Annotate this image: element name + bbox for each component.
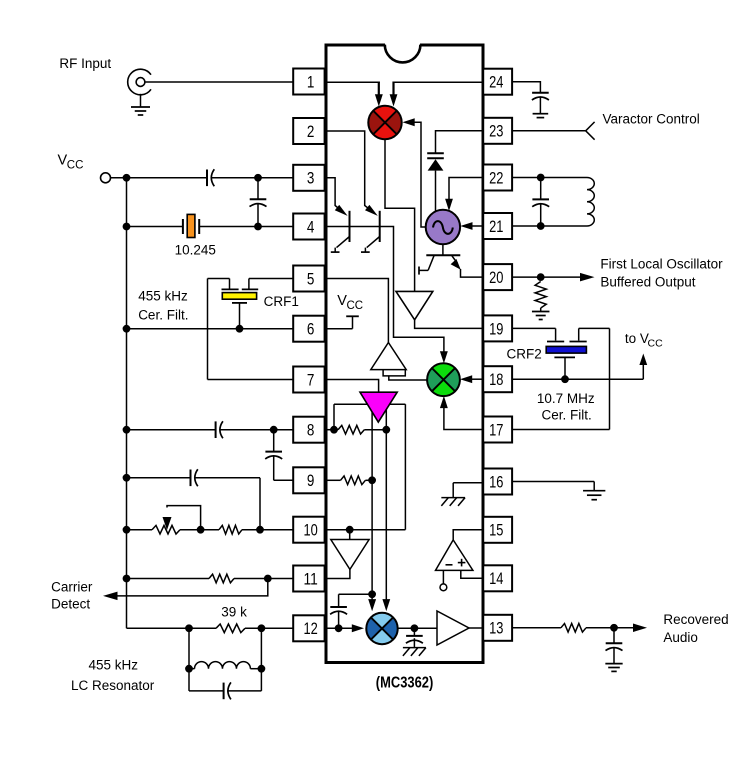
resistor R8 (pin 9 internal) <box>341 476 366 485</box>
node: junction dot pin-8 row near box <box>270 426 278 434</box>
svg-text:6: 6 <box>307 320 315 339</box>
ground (slashed) at C11 <box>403 647 426 649</box>
ground at C7 <box>533 97 549 118</box>
node: junction dot rail pin-11 row <box>123 575 131 583</box>
arrow into quad detector left <box>352 624 364 632</box>
audio buffer A5 (right triangle) <box>437 611 469 645</box>
resistor R7 (pin 8 internal) <box>338 425 364 434</box>
wire pin 1 to first mixer <box>326 81 380 83</box>
wire pin 10 internal row <box>326 529 405 531</box>
wire A2 output to second mixer <box>389 376 427 380</box>
resistor R2 (pin 10 row) <box>219 525 242 534</box>
wire RF connector to pin 1 <box>145 81 293 83</box>
wire pin 5 to IF amp A2 <box>326 279 388 343</box>
wire pin 18 to Vcc pull <box>512 378 643 380</box>
svg-text:CC: CC <box>648 338 664 350</box>
wire comparator output to pin 15 <box>453 530 483 540</box>
transistor Q3 (oscillator buffer) <box>419 244 460 274</box>
Vcc label <box>58 153 84 172</box>
capacitor C8 (first LO tank) <box>532 178 549 227</box>
ground at pin 16 <box>583 482 605 500</box>
node: junction dot rail pin-4 row <box>123 223 131 231</box>
wire pin 2 to transistor Q2 <box>326 131 372 211</box>
wire quad detector output to audio buffer <box>398 627 437 629</box>
wire rail to pin 8 with series capacitor <box>127 429 294 431</box>
svg-text:10.245: 10.245 <box>175 243 216 258</box>
capacitor C2 (pin3 node down to pin4 node) <box>250 178 267 227</box>
wire pin 3 to transistor Q1 <box>326 178 342 211</box>
ground at R5 <box>532 308 550 320</box>
svg-text:19: 19 <box>489 319 503 338</box>
arrow into second mixer right <box>460 375 472 383</box>
inductor L2 (first LO tank) <box>587 178 594 226</box>
svg-text:9: 9 <box>307 471 315 490</box>
capacitor C4 (pin8 node down to pin 9) <box>265 430 293 481</box>
wire pin 20 buffered output <box>512 276 581 278</box>
wire rail to pot <box>127 529 153 531</box>
wire pin 10 down to meter amp <box>349 530 351 540</box>
svg-text:39 k: 39 k <box>221 605 247 620</box>
inductor L1 (455 kHz LC resonator) <box>189 628 261 668</box>
capacitor C9 (audio to ground) <box>606 628 623 664</box>
svg-text:8: 8 <box>307 421 315 440</box>
svg-text:CC: CC <box>67 160 84 172</box>
crystal Y1 10.245 MHz <box>183 214 199 237</box>
node: junction dot rail pin-8 row <box>123 426 131 434</box>
svg-text:Audio: Audio <box>663 630 698 645</box>
node: junction dot L1 right <box>258 665 266 673</box>
wire carrier detect output <box>117 579 268 596</box>
pin 5 box <box>293 266 324 292</box>
svg-text:11: 11 <box>303 569 317 588</box>
wire pin 18 into second mixer right <box>468 378 484 380</box>
arrow into second mixer bottom <box>440 396 448 408</box>
arrows into quad detector top <box>368 599 390 611</box>
svg-text:4: 4 <box>307 217 315 236</box>
node: junction dot pin-3 row right <box>254 174 262 182</box>
node: junction dot pot wiper tap <box>197 526 205 534</box>
node: junction dot detector output <box>411 624 419 632</box>
label Carrier Detect <box>51 579 93 611</box>
RF input connector J1 <box>128 69 151 95</box>
capacitor C1 (series, Vcc to pin 3) <box>206 170 208 187</box>
ground at C9 <box>605 663 622 665</box>
wire A1 output to pin 19 <box>415 320 484 329</box>
node: junction dot pin-20 wire <box>537 273 545 281</box>
svg-text:RF Input: RF Input <box>59 56 111 71</box>
resistor R4 39k (pin 12 row) <box>216 624 245 633</box>
resistor R3 (pin 11 row) <box>209 574 234 583</box>
Vcc label inside IC <box>337 293 363 312</box>
svg-text:22: 22 <box>489 168 503 187</box>
svg-text:15: 15 <box>489 521 503 540</box>
pin 12 box <box>293 615 324 641</box>
comparator A6 <box>436 540 473 571</box>
arrow into second mixer top <box>440 351 448 363</box>
oscillator OSC1 (purple, sine) <box>426 210 460 244</box>
wire Vcc to pin 3 with series capacitor break <box>111 177 294 179</box>
svg-text:5: 5 <box>307 269 315 288</box>
label 455 kHz Cer. Filt. <box>138 289 188 323</box>
wire pin 22 to tank <box>512 177 587 179</box>
svg-text:Recovered: Recovered <box>663 612 728 627</box>
node: junction dot on Vcc rail at pin-3 row <box>123 174 131 182</box>
svg-text:Detect: Detect <box>51 597 90 612</box>
node: junction dot rail pin-6 row <box>123 325 131 333</box>
wire pin 24 to bypass cap <box>512 82 540 93</box>
second mixer M2 (green) <box>427 363 460 396</box>
IC body U1 MC3362 DIP-24 outline <box>326 43 483 663</box>
svg-text:20: 20 <box>489 268 503 287</box>
node: junction dot quad tap <box>368 590 376 598</box>
wire rail to R3 to pin 11 <box>127 578 294 580</box>
IF amp A2 (up triangle) <box>371 343 406 376</box>
pin 4 box <box>293 214 324 240</box>
arrow into oscillator top <box>445 199 453 211</box>
node: junction dot CRF1 bottom on pin-6 wire <box>236 325 244 333</box>
wire rail to pin 6 <box>127 328 294 330</box>
wire pin 17 up into second mixer bottom <box>444 406 483 430</box>
pin 10 box <box>293 517 324 543</box>
pin 18 box <box>483 366 512 392</box>
wire R6 to arrow <box>586 627 634 629</box>
meter drive amp A4 (down triangle) <box>331 540 369 570</box>
svg-text:17: 17 <box>489 420 503 439</box>
svg-text:18: 18 <box>489 370 503 389</box>
pin 14 box <box>483 565 512 591</box>
capacitor C6 (LC resonator) <box>189 669 261 700</box>
pin 22 box <box>483 165 512 191</box>
pin 16 box <box>483 469 512 495</box>
node: junction dot feedback tap pin 8 <box>330 426 338 434</box>
wire pin 24 to first mixer <box>393 81 484 83</box>
svg-text:14: 14 <box>489 569 503 588</box>
pin 15 box <box>483 517 512 543</box>
svg-text:10.7 MHz: 10.7 MHz <box>537 391 595 406</box>
svg-text:CC: CC <box>347 300 364 312</box>
svg-text:21: 21 <box>489 217 503 236</box>
pin 23 box <box>483 118 512 144</box>
pin 20 box <box>483 264 512 290</box>
svg-text:12: 12 <box>303 619 317 638</box>
first mixer M1 (red) <box>368 106 401 139</box>
svg-text:23: 23 <box>489 122 503 141</box>
wire pin 21 to tank <box>512 225 587 227</box>
svg-text:to V: to V <box>625 331 649 346</box>
wire pin 12 into quad detector <box>326 627 355 629</box>
capacitor C5 (series, rail row 9) <box>190 470 192 487</box>
pin 6 box <box>293 316 324 342</box>
capacitor C3 (series, rail to pin 8) <box>215 421 217 438</box>
svg-text:CRF1: CRF1 <box>264 294 299 309</box>
node: junction dot pin-11 row near box <box>264 575 272 583</box>
wire pin 21 into oscillator right <box>468 225 483 227</box>
varactor diode D1 <box>427 153 444 214</box>
node: junction dot tank bottom <box>537 222 545 230</box>
node: junction dot pin-10 internal <box>346 526 354 534</box>
node: junction dot 39k right <box>258 624 266 632</box>
wire pin 23 to varactor <box>436 131 484 153</box>
svg-text:455 kHz: 455 kHz <box>138 289 188 304</box>
arrow into Q2 base bar <box>365 205 378 216</box>
arrow into first mixer (from pin 1) <box>375 94 383 106</box>
capacitor C7 (pin 24 bypass) <box>532 92 549 94</box>
wire CRF1 left terminal down to pin 7 <box>208 279 294 380</box>
wire rail row 9 with series capacitor to pin10 row <box>127 478 261 530</box>
pin 13 box <box>483 615 512 641</box>
pin 24 box <box>483 69 512 95</box>
ceramic filter CRF2 <box>512 328 587 379</box>
wire pin 9 internal <box>326 479 372 481</box>
pin 9 box <box>293 467 324 493</box>
wire A5 to pin 13 <box>469 627 483 629</box>
node: junction dot rail pin-10 row <box>123 526 131 534</box>
arrow first LO buffered output <box>580 273 595 282</box>
ground (slashed) at pin 16 internal <box>441 497 465 499</box>
wire A4 output to pin 11 <box>326 569 350 578</box>
wire comparator plus input to pin 14 <box>461 570 483 578</box>
ceramic filter CRF1 <box>208 279 259 329</box>
wire Q3 emitter to pin 20 <box>461 269 484 277</box>
pin 19 box <box>483 315 512 341</box>
wire Vcc left rail (vertical) <box>126 178 128 629</box>
wire limiter feedback and bias (behind limiter triangle) <box>334 404 405 600</box>
label Recovered Audio <box>663 612 728 645</box>
Vcc terminal open circle <box>101 173 111 183</box>
wire rail to crystal to pin 4 <box>127 226 294 228</box>
svg-text:455 kHz: 455 kHz <box>89 658 139 673</box>
node: junction dot CRF2 bottom on pin-18 wire <box>561 375 569 383</box>
resistor R5 (pin 20 to ground) <box>535 282 546 309</box>
arrow recovered audio output <box>633 624 647 633</box>
wire pin 16 internal to ground <box>453 483 483 498</box>
svg-text:Cer. Filt.: Cer. Filt. <box>138 307 188 322</box>
node: junction dot rail pin-9 row <box>123 474 131 482</box>
wire oscillator to first mixer (LO injection) <box>412 122 426 227</box>
chevron varactor control input <box>586 122 595 140</box>
wire rail corner to 39k to pin 12 <box>127 627 294 629</box>
wire pin 7 into limiter top <box>326 380 379 393</box>
quadrature detector M3 (blue) <box>366 613 397 644</box>
node: junction dot 39k left <box>185 624 193 632</box>
transistor Q2 <box>361 211 380 252</box>
node: junction dot L1 left <box>185 665 193 673</box>
svg-text:(MC3362): (MC3362) <box>376 675 434 692</box>
potentiometer R1 (pin 10 row) <box>152 506 201 534</box>
wire CRF2 right terminal over to pins 18/17 column <box>512 328 609 429</box>
wire pin 4 through Q1/Q2 bases down to second mixer <box>326 227 444 354</box>
pin 7 box <box>293 367 324 393</box>
label 455 kHz LC Resonator <box>71 658 155 694</box>
capacitor C11 (detector output to ground) <box>406 628 423 647</box>
arrow Q3 emitter <box>451 259 461 270</box>
svg-text:3: 3 <box>307 169 315 188</box>
wire pot to R2 to pin 10 <box>180 529 293 531</box>
node: junction dot pin-8 bias line <box>382 426 390 434</box>
wire pin 16 to ground <box>512 481 594 483</box>
arrow into oscillator right <box>460 222 472 230</box>
node: junction dot audio <box>610 624 618 632</box>
comparator minus input open circle <box>440 570 447 590</box>
svg-text:13: 13 <box>489 619 503 638</box>
svg-text:10: 10 <box>303 521 317 540</box>
pin 17 box <box>483 417 512 443</box>
transistor Q1 <box>331 211 350 252</box>
pin 1 box <box>293 69 324 95</box>
wire CRF1 right terminal to pin 5 <box>249 278 293 280</box>
wire and arrow to Vcc (pin 18) <box>639 354 647 380</box>
svg-text:CRF2: CRF2 <box>507 347 542 362</box>
ground at RF connector <box>131 94 150 115</box>
wire pin 13 to audio out <box>512 627 561 629</box>
svg-text:1: 1 <box>307 72 315 91</box>
svg-text:16: 16 <box>489 472 503 491</box>
svg-text:LC Resonator: LC Resonator <box>71 678 155 693</box>
pin 3 box <box>293 165 324 191</box>
svg-text:2: 2 <box>307 122 315 141</box>
arrow carrier detect (points left) <box>103 592 118 601</box>
svg-text:Buffered Output: Buffered Output <box>600 275 695 290</box>
svg-text:Varactor Control: Varactor Control <box>603 112 700 127</box>
wire quad coil tap with capacitor C10 <box>330 594 372 628</box>
label First Local Oscillator Buffered Output <box>600 257 723 290</box>
node: junction dot C5 path joins pin-10 row <box>256 526 264 534</box>
arrow into first mixer (from pin 24) <box>390 94 398 106</box>
Vcc tick symbol at pin 6 <box>326 316 359 328</box>
svg-text:First Local Oscillator: First Local Oscillator <box>600 257 723 272</box>
wire pin 23 varactor control input <box>512 130 586 132</box>
svg-text:Carrier: Carrier <box>51 579 93 594</box>
limiter amp A3 (magenta down triangle) <box>360 392 397 422</box>
node: junction dot tank top <box>537 174 545 182</box>
label 10.7 MHz Cer. Filt. <box>537 391 595 423</box>
LO buffer amp A1 (down triangle) <box>396 291 433 319</box>
node: junction dot pin-4 row right <box>254 223 262 231</box>
pin 8 box <box>293 417 324 443</box>
wire pin 22 into oscillator top <box>449 178 483 201</box>
arrow into first mixer right <box>403 118 415 126</box>
pin 21 box <box>483 213 512 239</box>
resistor R6 (pin 13 audio) <box>561 624 586 633</box>
arrow into Q1 base bar <box>335 205 348 216</box>
pin 2 box <box>293 118 324 144</box>
svg-text:24: 24 <box>489 73 503 92</box>
svg-text:Cer. Filt.: Cer. Filt. <box>542 408 592 423</box>
wire pin 8 internal <box>326 429 386 431</box>
label to Vcc <box>625 331 663 350</box>
node: junction dot C10 at pin-12 row <box>335 624 343 632</box>
node: junction dot pin-9 on bias line <box>368 476 376 484</box>
wire first mixer output down to LO buffer jog <box>385 139 415 291</box>
pin 11 box <box>293 566 324 592</box>
svg-text:7: 7 <box>307 370 315 389</box>
